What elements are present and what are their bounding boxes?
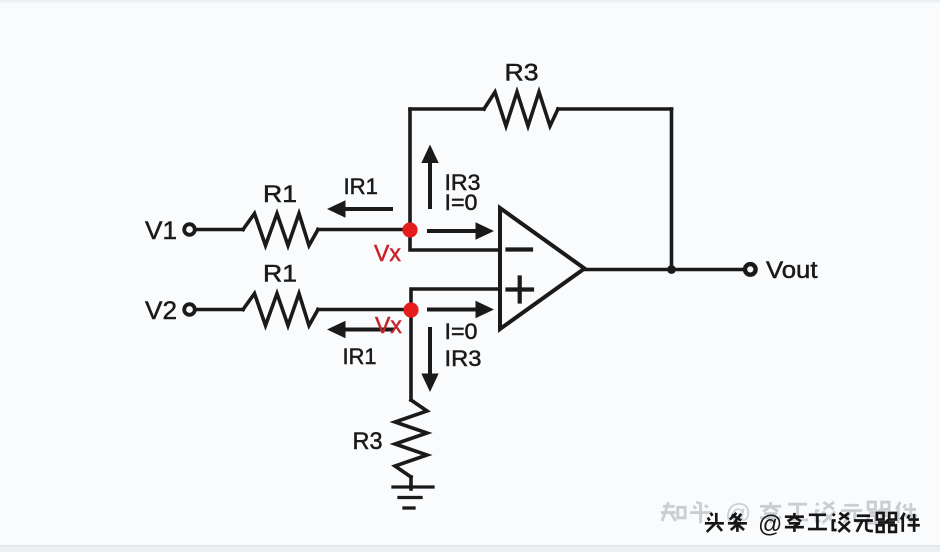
junction output node xyxy=(667,265,676,274)
resistor R3 (ground leg) xyxy=(395,400,427,477)
svg-text:Vx: Vx xyxy=(375,312,402,338)
bottom edge strip xyxy=(0,545,940,552)
arrow IR3 bottom (down) xyxy=(421,327,438,392)
resistor R1 (top) xyxy=(243,214,318,246)
wire R1 to node Vx2 xyxy=(318,308,411,312)
svg-text:R1: R1 xyxy=(263,181,297,208)
resistor R1 (bottom) xyxy=(243,294,318,326)
terminal Vout xyxy=(745,264,756,275)
wire V1 to R1 xyxy=(197,228,244,232)
arrow IR3 top (up) xyxy=(421,145,438,210)
wire op-amp output to Vout xyxy=(585,268,743,272)
svg-text:I=0: I=0 xyxy=(445,319,478,344)
svg-text:@: @ xyxy=(758,511,782,538)
svg-text:V2: V2 xyxy=(145,297,177,325)
ground xyxy=(393,487,433,508)
wire R3 to ground xyxy=(409,477,413,489)
wire node Vx1 to inverting input xyxy=(410,230,500,251)
watermark zhihu (grey): 知乎 @李工谈元器件 xyxy=(661,498,917,528)
svg-text:R1: R1 xyxy=(263,261,297,288)
watermark toutiao (black): 头条 @李工谈元器件 xyxy=(705,511,920,538)
wire feedback top left xyxy=(410,107,484,111)
svg-text:IR1: IR1 xyxy=(343,344,377,369)
wire feedback top right xyxy=(558,107,672,111)
wire R1 to node Vx1 xyxy=(318,228,410,232)
arrow IR1 bottom (left) xyxy=(327,321,394,338)
arrow I=0 bottom (right into plus input) xyxy=(427,301,494,318)
arrow I=0 top (right into minus input) xyxy=(427,222,494,239)
svg-text:I=0: I=0 xyxy=(445,190,478,215)
svg-text:Vout: Vout xyxy=(766,257,818,284)
wire feedback down to output xyxy=(670,109,674,270)
svg-text:IR1: IR1 xyxy=(344,174,379,199)
resistor R3 (feedback) xyxy=(484,92,558,126)
op-amp U1 xyxy=(500,208,585,329)
terminal V2 xyxy=(184,304,195,315)
wire node Vx2 down to R3 xyxy=(409,310,413,401)
svg-text:IR3: IR3 xyxy=(445,346,482,371)
wire node Vx2 to non-inverting input xyxy=(411,289,500,310)
wire V2 to R1 xyxy=(197,308,244,312)
svg-text:Vx: Vx xyxy=(374,240,401,266)
arrow IR1 top (left) xyxy=(327,200,393,217)
svg-text:R3: R3 xyxy=(505,60,539,87)
terminal V1 xyxy=(184,224,195,235)
wire node Vx1 up to feedback xyxy=(408,109,412,230)
op-amp plus sign xyxy=(508,278,533,302)
node Vx2 red dot xyxy=(403,302,418,317)
top edge line xyxy=(0,0,940,3)
node Vx1 red dot xyxy=(402,222,417,237)
svg-text:V1: V1 xyxy=(145,217,177,245)
op-amp minus sign xyxy=(508,247,532,251)
svg-text:R3: R3 xyxy=(353,428,383,455)
